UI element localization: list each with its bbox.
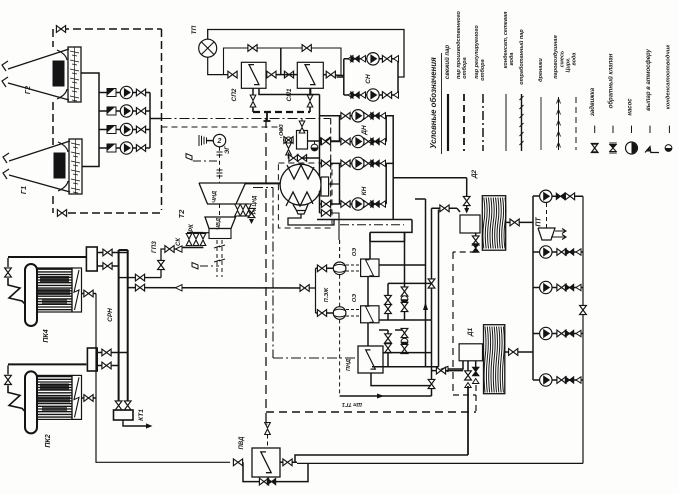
wire bbox=[214, 260, 220, 262]
valve bbox=[364, 138, 373, 145]
wire bbox=[73, 165, 78, 166]
valve SP1 inlet bbox=[284, 71, 293, 78]
wire bbox=[346, 309, 360, 311]
wire bbox=[288, 214, 334, 225]
wire bbox=[448, 361, 463, 369]
wire bbox=[533, 287, 540, 289]
wire bbox=[38, 290, 72, 292]
heat exchange coil bbox=[305, 65, 315, 85]
wire bbox=[393, 177, 467, 179]
wire bbox=[371, 373, 432, 386]
valve D1 outlet bbox=[509, 349, 518, 356]
valve bbox=[84, 290, 93, 297]
valve bbox=[321, 138, 330, 145]
wire bbox=[463, 94, 465, 151]
wire bbox=[214, 246, 220, 248]
cone valve bbox=[348, 56, 353, 62]
pump bbox=[367, 53, 379, 65]
wire bbox=[61, 28, 162, 30]
valve bbox=[56, 26, 65, 33]
wire bbox=[71, 152, 80, 154]
valve bbox=[385, 334, 392, 343]
wire bbox=[99, 129, 150, 131]
wire bbox=[441, 53, 443, 154]
wire bbox=[38, 384, 72, 386]
wire bbox=[70, 60, 79, 62]
wire bbox=[74, 47, 76, 102]
wire bbox=[7, 365, 9, 374]
wire bbox=[520, 114, 524, 118]
D1 tank bbox=[484, 325, 505, 394]
deaerator D2 column bbox=[460, 215, 480, 233]
svg-text:РК: РК bbox=[189, 223, 195, 232]
wire bbox=[538, 228, 555, 240]
wire bbox=[301, 157, 320, 159]
wire bbox=[8, 49, 69, 69]
RK TsND valve bbox=[246, 204, 252, 216]
wire bbox=[308, 140, 320, 142]
wire bbox=[72, 100, 77, 101]
vent-to-atmosphere symbol bbox=[192, 263, 198, 270]
wire bbox=[582, 196, 584, 463]
wire bbox=[405, 220, 413, 233]
wire bbox=[558, 97, 560, 150]
wire bbox=[72, 55, 77, 56]
circulating pump ЦН4 bbox=[120, 142, 132, 154]
wire bbox=[452, 252, 454, 395]
wire bbox=[81, 73, 99, 167]
wire bbox=[72, 64, 77, 65]
wire bbox=[72, 82, 77, 83]
wire bbox=[7, 258, 9, 267]
svg-text:Т2: Т2 bbox=[177, 209, 186, 219]
wire bbox=[243, 462, 308, 481]
vent below OEZ bbox=[286, 143, 292, 155]
wire bbox=[309, 88, 311, 97]
wire bbox=[385, 163, 387, 204]
wire bbox=[425, 199, 427, 367]
svg-text:ЧНД: ЧНД bbox=[212, 191, 218, 203]
wire bbox=[592, 143, 598, 145]
wire bbox=[272, 188, 274, 359]
valve bbox=[233, 459, 242, 466]
wire bbox=[467, 386, 469, 455]
wire bbox=[82, 293, 97, 295]
svg-text:Д2: Д2 bbox=[471, 169, 478, 179]
heat consumer TP bbox=[199, 39, 217, 57]
wire bbox=[259, 88, 311, 94]
wire bbox=[38, 287, 72, 289]
valve bbox=[248, 208, 255, 217]
wire bbox=[552, 333, 583, 335]
ejector 1 bbox=[333, 262, 346, 275]
wire bbox=[319, 95, 321, 177]
heater PND bbox=[358, 346, 383, 373]
valve circ pump 1 bbox=[136, 89, 145, 96]
wire bbox=[72, 73, 77, 74]
wire bbox=[219, 204, 221, 217]
cone valve bbox=[381, 201, 386, 207]
wire bbox=[73, 192, 78, 193]
wire bbox=[482, 94, 484, 151]
wire bbox=[552, 195, 583, 197]
valve bbox=[364, 112, 373, 119]
valve PVD outlet bbox=[283, 459, 292, 466]
valve bbox=[321, 201, 330, 208]
pump bbox=[352, 157, 364, 169]
wire bbox=[97, 265, 118, 267]
wire bbox=[208, 30, 404, 78]
wire bbox=[161, 249, 182, 278]
heater PVD bbox=[252, 448, 280, 477]
svg-text:СК: СК bbox=[176, 237, 182, 246]
wire bbox=[246, 182, 281, 184]
wire bbox=[467, 386, 469, 455]
svg-text:ПТ: ПТ bbox=[536, 217, 543, 227]
wire bbox=[238, 215, 250, 217]
svg-text:выпар в атмосферу: выпар в атмосферу bbox=[645, 48, 652, 110]
wire bbox=[505, 94, 507, 151]
wire bbox=[97, 252, 128, 254]
legend check symbol bbox=[610, 145, 616, 149]
wire bbox=[466, 206, 468, 213]
RK TsND valve bbox=[240, 204, 246, 216]
wire bbox=[203, 232, 209, 234]
circulating pump ЦН2 bbox=[120, 105, 132, 117]
wire bbox=[273, 357, 358, 359]
wire bbox=[575, 97, 577, 150]
wire bbox=[372, 366, 439, 368]
valve bbox=[385, 295, 392, 304]
valve bbox=[57, 210, 66, 217]
wire bbox=[506, 221, 533, 223]
valve SP2 outlet bbox=[267, 71, 276, 78]
strainer 3 bbox=[107, 126, 116, 134]
valve bbox=[341, 201, 350, 208]
wire bbox=[404, 232, 406, 320]
boiler PK4 steam header bbox=[86, 247, 97, 271]
svg-text:Условные обозначения: Условные обозначения bbox=[429, 57, 438, 149]
valve before SK bbox=[165, 246, 174, 253]
valve bbox=[364, 160, 373, 167]
svg-text:свежий пар: свежий пар bbox=[444, 45, 451, 79]
svg-text:ОЭ: ОЭ bbox=[352, 248, 358, 256]
wire bbox=[520, 123, 524, 127]
wire bbox=[38, 400, 72, 402]
wire bbox=[289, 153, 291, 159]
wire bbox=[432, 370, 464, 372]
wire bbox=[128, 287, 305, 289]
wire bbox=[533, 195, 540, 197]
wire bbox=[309, 287, 315, 289]
wire bbox=[253, 111, 310, 113]
wire bbox=[367, 277, 369, 306]
wire bbox=[631, 126, 633, 133]
condenser dashed enclosure bbox=[278, 163, 332, 228]
ejector 2 bbox=[333, 307, 346, 320]
check D2 drain bbox=[473, 244, 479, 252]
wire bbox=[187, 232, 203, 234]
wire bbox=[447, 94, 449, 151]
wire bbox=[309, 107, 311, 112]
steam trap bbox=[401, 338, 408, 345]
wire bbox=[266, 74, 285, 76]
wire bbox=[340, 224, 404, 226]
wire bbox=[594, 126, 596, 133]
valve bbox=[321, 160, 330, 167]
svg-text:задвижка: задвижка bbox=[590, 87, 596, 116]
wire bbox=[71, 179, 80, 181]
wire bbox=[3, 153, 9, 163]
valve bbox=[557, 249, 566, 256]
wire bbox=[70, 78, 79, 80]
wire bbox=[344, 58, 398, 60]
wire bbox=[217, 175, 223, 177]
wire bbox=[466, 178, 468, 197]
wire bbox=[431, 208, 433, 396]
wire bbox=[339, 240, 341, 261]
ejector cooler OE-2 bbox=[361, 306, 379, 323]
valve bbox=[382, 92, 391, 99]
cone valve bbox=[576, 330, 581, 336]
cone valve bbox=[381, 160, 386, 166]
svg-text:дренажи: дренажи bbox=[538, 58, 544, 82]
RK TsND valve bbox=[235, 204, 241, 216]
svg-text:ОЭ: ОЭ bbox=[352, 294, 358, 302]
wire bbox=[38, 284, 72, 286]
wire bbox=[340, 395, 432, 397]
wire bbox=[217, 169, 223, 171]
wire bbox=[252, 88, 254, 97]
wire bbox=[668, 126, 670, 133]
wire bbox=[475, 385, 477, 412]
wire bbox=[379, 319, 432, 321]
wire bbox=[119, 277, 161, 279]
svg-text:отбора: отбора bbox=[461, 57, 468, 78]
wire bbox=[73, 183, 78, 184]
vent-to-atmosphere symbol bbox=[186, 154, 192, 161]
cone valve bbox=[381, 113, 386, 119]
pump bbox=[352, 110, 364, 122]
valve bypass 1 bbox=[248, 45, 257, 52]
generator EG bbox=[213, 134, 225, 146]
wire bbox=[219, 147, 221, 183]
wire bbox=[9, 141, 70, 161]
valve circ pump 3 bbox=[136, 126, 145, 133]
wire bbox=[386, 116, 393, 220]
wire bbox=[206, 137, 208, 143]
wire bbox=[329, 183, 340, 185]
wire bbox=[205, 217, 236, 229]
svg-text:конденсатоотводчик: конденсатоотводчик bbox=[665, 44, 671, 109]
valve D2 side bbox=[440, 205, 449, 212]
valve GPZ bbox=[158, 260, 165, 269]
valve bbox=[401, 302, 408, 311]
wire bbox=[301, 119, 303, 126]
valve to D1 bbox=[436, 367, 445, 374]
wire bbox=[99, 92, 150, 94]
wire bbox=[343, 59, 345, 95]
wire bbox=[52, 29, 54, 47]
cone valve bbox=[361, 56, 366, 62]
svg-text:2: 2 bbox=[217, 138, 222, 145]
valve D2 outlet bbox=[510, 219, 519, 226]
wire bbox=[8, 363, 86, 365]
heat exchange coil bbox=[366, 306, 374, 322]
valve bbox=[341, 138, 350, 145]
wire bbox=[219, 259, 225, 261]
valve ejector 2 bbox=[317, 310, 326, 317]
svg-text:СРН: СРН bbox=[107, 308, 114, 322]
wire bbox=[38, 392, 72, 394]
wire bbox=[379, 264, 426, 266]
wire bbox=[316, 312, 334, 314]
condenser hotwell bbox=[293, 205, 308, 211]
svg-text:ПК4: ПК4 bbox=[43, 329, 50, 342]
valve SP1 outlet bbox=[326, 71, 335, 78]
wire bbox=[38, 403, 72, 405]
valve bbox=[364, 201, 373, 208]
wire bbox=[346, 264, 360, 266]
wire bbox=[397, 59, 399, 95]
wire bbox=[369, 232, 371, 241]
valve branch SK bbox=[135, 274, 144, 281]
wire bbox=[68, 212, 162, 214]
wire bbox=[38, 395, 72, 397]
wire bbox=[404, 330, 406, 353]
wire bbox=[2, 61, 8, 71]
valve bbox=[115, 401, 122, 410]
wire bbox=[592, 151, 598, 153]
svg-text:Шп ТГ1: Шп ТГ1 bbox=[342, 401, 362, 407]
wire bbox=[206, 140, 213, 142]
wire bbox=[379, 329, 388, 331]
wire bbox=[320, 141, 387, 143]
wire bbox=[295, 455, 468, 462]
wire bbox=[369, 232, 371, 259]
wire bbox=[532, 196, 534, 380]
wire bbox=[320, 115, 387, 117]
wire bbox=[38, 271, 72, 273]
wire bbox=[70, 51, 79, 53]
valve bbox=[385, 304, 392, 313]
wire bbox=[320, 162, 387, 164]
wire bbox=[38, 416, 72, 418]
pump PT booster bbox=[540, 190, 552, 202]
svg-text:обратный клапан: обратный клапан bbox=[608, 53, 615, 108]
valve circ pump 4 bbox=[136, 145, 145, 152]
wire bbox=[182, 246, 203, 248]
wire bbox=[280, 461, 297, 463]
valve D1 drain 1 bbox=[465, 371, 472, 380]
svg-text:П.ЭЖ: П.ЭЖ bbox=[324, 287, 330, 302]
wire bbox=[404, 232, 406, 241]
check valve bbox=[371, 160, 379, 166]
wire bbox=[38, 303, 72, 305]
wire bbox=[520, 141, 524, 145]
wire bbox=[70, 87, 79, 89]
wire bbox=[127, 250, 129, 402]
wire bbox=[201, 136, 203, 145]
valve bbox=[463, 196, 470, 205]
svg-text:ТП: ТП bbox=[191, 25, 198, 34]
wire bbox=[339, 116, 341, 142]
vent valve bbox=[307, 95, 313, 107]
check D1 drain 2 bbox=[473, 367, 479, 375]
wire bbox=[38, 295, 72, 297]
wire bbox=[38, 381, 72, 383]
cone valve bbox=[361, 92, 366, 98]
wire bbox=[198, 135, 200, 146]
svg-text:вода: вода bbox=[509, 52, 515, 65]
wire bbox=[38, 279, 72, 281]
wire bbox=[73, 156, 78, 157]
svg-text:ПК2: ПК2 bbox=[45, 434, 52, 447]
wire bbox=[552, 379, 583, 381]
wire bbox=[71, 143, 80, 145]
wire bbox=[475, 361, 477, 368]
cone D1 drain 1 bbox=[465, 383, 471, 388]
wire bbox=[219, 245, 225, 247]
wire bbox=[71, 161, 80, 163]
wire bbox=[221, 240, 223, 277]
wire bbox=[330, 140, 340, 142]
cone valve bbox=[348, 92, 353, 98]
valve bypass 2 bbox=[302, 45, 311, 52]
wire bbox=[162, 126, 282, 128]
wire bbox=[533, 379, 540, 381]
check valve bbox=[371, 138, 379, 144]
wire bbox=[314, 141, 316, 144]
svg-text:ГПЗ: ГПЗ bbox=[152, 241, 158, 253]
wire bbox=[546, 203, 548, 228]
wire bbox=[319, 191, 321, 213]
svg-text:насос: насос bbox=[628, 98, 634, 116]
tower fill pack bbox=[54, 153, 65, 178]
cone valve bbox=[576, 284, 581, 290]
wire bbox=[73, 174, 78, 175]
check valve bbox=[565, 330, 573, 336]
wire bbox=[552, 287, 583, 289]
wire bbox=[540, 97, 542, 150]
wire bbox=[123, 420, 146, 426]
valve SP2 inlet bbox=[228, 71, 237, 78]
pump bbox=[367, 89, 379, 101]
svg-text:отбора: отбора bbox=[479, 59, 486, 80]
check valve bbox=[565, 377, 573, 383]
SK/RK stop-control valve bbox=[200, 234, 206, 246]
wire bbox=[96, 294, 230, 463]
svg-text:КН: КН bbox=[361, 186, 368, 195]
wire bbox=[8, 385, 25, 411]
vent valve bbox=[250, 95, 256, 107]
wire bbox=[453, 251, 476, 253]
pump bbox=[540, 374, 552, 386]
wire bbox=[252, 107, 254, 112]
wire bbox=[73, 147, 78, 148]
wire bbox=[38, 408, 72, 410]
svg-text:СН: СН bbox=[365, 74, 372, 84]
wire bbox=[162, 118, 331, 120]
wire bbox=[150, 118, 162, 120]
wire bbox=[199, 183, 246, 204]
wire bbox=[521, 94, 523, 151]
wire bbox=[467, 361, 469, 371]
wire bbox=[38, 405, 72, 407]
svg-text:вода: вода bbox=[572, 52, 578, 65]
wire bbox=[8, 278, 25, 304]
wire bbox=[72, 91, 77, 92]
